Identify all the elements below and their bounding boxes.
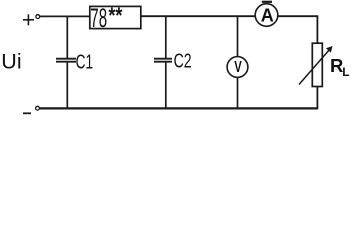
wire C1 top lead (66, 16, 68, 58)
wire voltmeter bottom lead (237, 77, 239, 108)
wire C1 bottom lead (66, 63, 68, 109)
svg-text:**: ** (108, 3, 122, 28)
wire right side down to rheostat (316, 16, 318, 43)
svg-text:78: 78 (90, 3, 107, 33)
wire C2 bottom lead (165, 63, 167, 109)
ammeter A circle (255, 4, 278, 27)
wire rheostat bottom lead (316, 87, 318, 109)
regulator U1 box 78** (90, 6, 141, 28)
wire voltmeter top lead (237, 16, 239, 56)
svg-text:A: A (261, 5, 274, 25)
capacitor C2 (154, 59, 172, 62)
svg-text:C2: C2 (174, 50, 192, 73)
node + input terminal plus sign (23, 14, 34, 25)
svg-text:C1: C1 (76, 50, 94, 73)
node - input terminal minus sign (23, 112, 31, 114)
svg-text:V: V (234, 59, 242, 76)
voltmeter V circle (227, 57, 248, 78)
regulator U1 value label 78** (90, 3, 122, 33)
resistor RL rheostat body (312, 43, 322, 86)
svg-text:L: L (342, 65, 349, 79)
wire top rail middle (regulator output to ammeter) (141, 15, 256, 17)
wire C2 top lead (165, 16, 167, 58)
resistor RL wiper arrow (299, 46, 333, 85)
ammeter polarity bar (262, 1, 272, 3)
resistor RL label (330, 55, 350, 79)
wire bottom rail (40, 107, 318, 109)
node - input terminal circle (36, 106, 40, 110)
wire top rail left (terminal to regulator input) (40, 15, 90, 17)
svg-text:Ui: Ui (1, 49, 21, 73)
capacitor C1 (56, 59, 76, 62)
wire top rail right (ammeter to corner) (278, 15, 318, 17)
node + input terminal circle (36, 15, 40, 19)
